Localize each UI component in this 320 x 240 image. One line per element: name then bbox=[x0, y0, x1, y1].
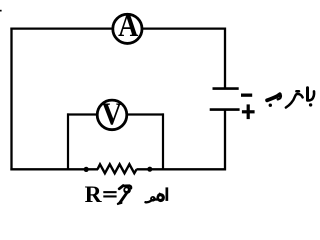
six flag curl bbox=[129, 186, 131, 189]
yeh dot below bbox=[269, 104, 272, 107]
beh initial stroke of با bbox=[307, 91, 314, 100]
battery plus sign vertical bar bbox=[247, 104, 250, 119]
six tail bbox=[120, 193, 127, 203]
voltmeter V1 circle bbox=[97, 100, 127, 130]
yeh body main band bbox=[267, 94, 280, 100]
wire right lower (battery plus plate to bottom wire) bbox=[224, 110, 226, 171]
wire voltmeter branch horizontal bbox=[67, 113, 164, 115]
wire voltmeter branch right vertical bbox=[162, 113, 164, 170]
alef of ohm bbox=[166, 187, 169, 201]
alef of با bbox=[306, 88, 309, 101]
battery top plate (negative, short) bbox=[213, 87, 239, 90]
equals sign top bar bbox=[103, 191, 116, 193]
meem head bbox=[150, 196, 156, 202]
resistor R zigzag bbox=[98, 164, 137, 173]
six crest top bar bbox=[123, 184, 130, 187]
junction dot left of resistor bbox=[84, 167, 89, 172]
six loop bbox=[123, 186, 131, 194]
junction dot right of resistor bbox=[147, 167, 152, 172]
yeh right hook bbox=[278, 94, 281, 99]
svg-text:V: V bbox=[102, 97, 123, 132]
wire left side bbox=[10, 28, 12, 171]
battery plus sign horizontal bar bbox=[242, 110, 255, 113]
svg-text:R: R bbox=[85, 182, 103, 208]
wire bottom right segment bbox=[136, 168, 226, 170]
ammeter A1 circle bbox=[113, 14, 142, 43]
battery minus sign bbox=[241, 94, 252, 97]
teh tooth joined to reh bbox=[286, 94, 303, 108]
Persian digit six bbox=[118, 186, 131, 204]
heh loop bbox=[157, 193, 165, 202]
battery bottom plate (positive, long) bbox=[210, 108, 240, 111]
beh dot below bbox=[309, 103, 312, 106]
svg-text:A: A bbox=[118, 8, 139, 43]
wire bottom left segment bbox=[10, 168, 98, 170]
teh two-dots dash bbox=[296, 90, 299, 93]
wire voltmeter branch left vertical bbox=[67, 113, 69, 170]
heh-meem baseline join bbox=[154, 198, 158, 200]
six crest diagonal bbox=[119, 186, 123, 189]
stray mark at left edge bbox=[0, 10, 2, 12]
label battery text (Persian: batri) bbox=[267, 88, 314, 108]
wire top (node from ammeter loop) bbox=[10, 28, 226, 30]
equals sign bottom bar bbox=[103, 195, 116, 197]
meem tail bbox=[146, 201, 151, 202]
six tail foot bbox=[118, 203, 122, 204]
wire right upper (top wire to battery minus plate) bbox=[224, 28, 226, 89]
label ohm (Persian: ohm) bbox=[146, 187, 169, 202]
